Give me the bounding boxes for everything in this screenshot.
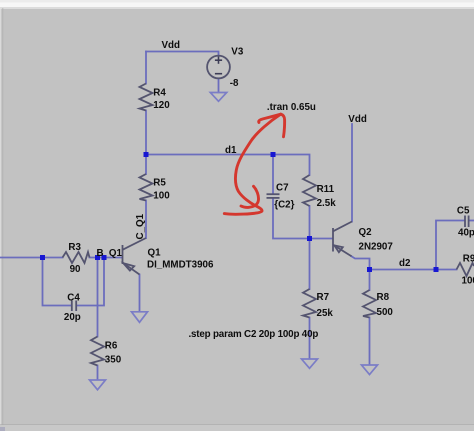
svg-text:350: 350 xyxy=(105,354,122,365)
svg-text:100: 100 xyxy=(462,275,474,286)
svg-text:25k: 25k xyxy=(317,308,334,319)
svg-text:C5: C5 xyxy=(457,206,470,217)
svg-text:500: 500 xyxy=(377,307,394,318)
svg-text:R5: R5 xyxy=(153,177,166,188)
svg-text:Vdd: Vdd xyxy=(162,40,181,51)
svg-text:2.5k: 2.5k xyxy=(317,198,337,209)
svg-text:R9: R9 xyxy=(463,253,474,264)
svg-text:R7: R7 xyxy=(317,292,330,303)
svg-text:100: 100 xyxy=(153,191,170,202)
svg-text:R11: R11 xyxy=(317,184,335,195)
svg-text:20p: 20p xyxy=(64,312,81,323)
svg-text:Q2: Q2 xyxy=(359,227,373,238)
svg-text:-8: -8 xyxy=(230,78,239,89)
svg-text:.tran 0.65u: .tran 0.65u xyxy=(267,102,316,113)
svg-text:DI_MMDT3906: DI_MMDT3906 xyxy=(147,259,214,270)
svg-text:C7: C7 xyxy=(276,182,289,193)
svg-text:d2: d2 xyxy=(399,258,411,269)
svg-text:C_Q1: C_Q1 xyxy=(135,213,146,239)
svg-text:{C2}: {C2} xyxy=(274,200,294,211)
svg-text:Q1: Q1 xyxy=(148,248,162,259)
svg-text:90: 90 xyxy=(70,264,81,275)
svg-text:R3: R3 xyxy=(68,242,81,253)
svg-text:2N2907: 2N2907 xyxy=(359,241,394,252)
svg-text:C4: C4 xyxy=(67,292,80,303)
svg-text:.step param C2 20p 100p 40p: .step param C2 20p 100p 40p xyxy=(189,329,319,340)
svg-text:Q1: Q1 xyxy=(109,248,123,259)
svg-text:B: B xyxy=(97,248,104,259)
svg-text:V3: V3 xyxy=(231,47,244,58)
svg-text:R4: R4 xyxy=(153,87,166,98)
svg-text:120: 120 xyxy=(153,100,170,111)
svg-text:R6: R6 xyxy=(105,341,118,352)
svg-text:R8: R8 xyxy=(377,292,390,303)
svg-text:d1: d1 xyxy=(225,145,237,156)
svg-text:Vdd: Vdd xyxy=(348,114,367,125)
svg-text:40p: 40p xyxy=(458,228,474,239)
